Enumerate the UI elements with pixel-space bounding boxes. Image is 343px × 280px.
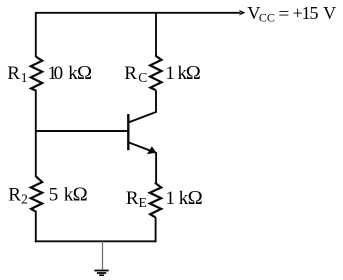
svg-text:R: R	[8, 185, 21, 206]
svg-text:Ω: Ω	[188, 187, 203, 209]
svg-text:1: 1	[21, 70, 28, 85]
svg-text:Ω: Ω	[77, 62, 92, 84]
svg-text:5: 5	[49, 185, 59, 206]
svg-text:CC: CC	[259, 11, 275, 25]
svg-text:1: 1	[165, 63, 175, 84]
svg-text:=: =	[278, 3, 289, 23]
svg-text:R: R	[126, 188, 139, 209]
svg-text:C: C	[138, 70, 147, 85]
svg-text:Ω: Ω	[73, 184, 88, 206]
svg-text:V: V	[323, 3, 336, 23]
svg-text:R: R	[124, 63, 137, 84]
svg-text:E: E	[138, 195, 146, 210]
svg-text:5: 5	[310, 3, 319, 23]
svg-text:0: 0	[54, 63, 64, 84]
svg-text:1: 1	[166, 188, 176, 209]
svg-text:Ω: Ω	[186, 62, 201, 84]
svg-text:2: 2	[21, 192, 28, 207]
svg-text:R: R	[7, 63, 20, 84]
